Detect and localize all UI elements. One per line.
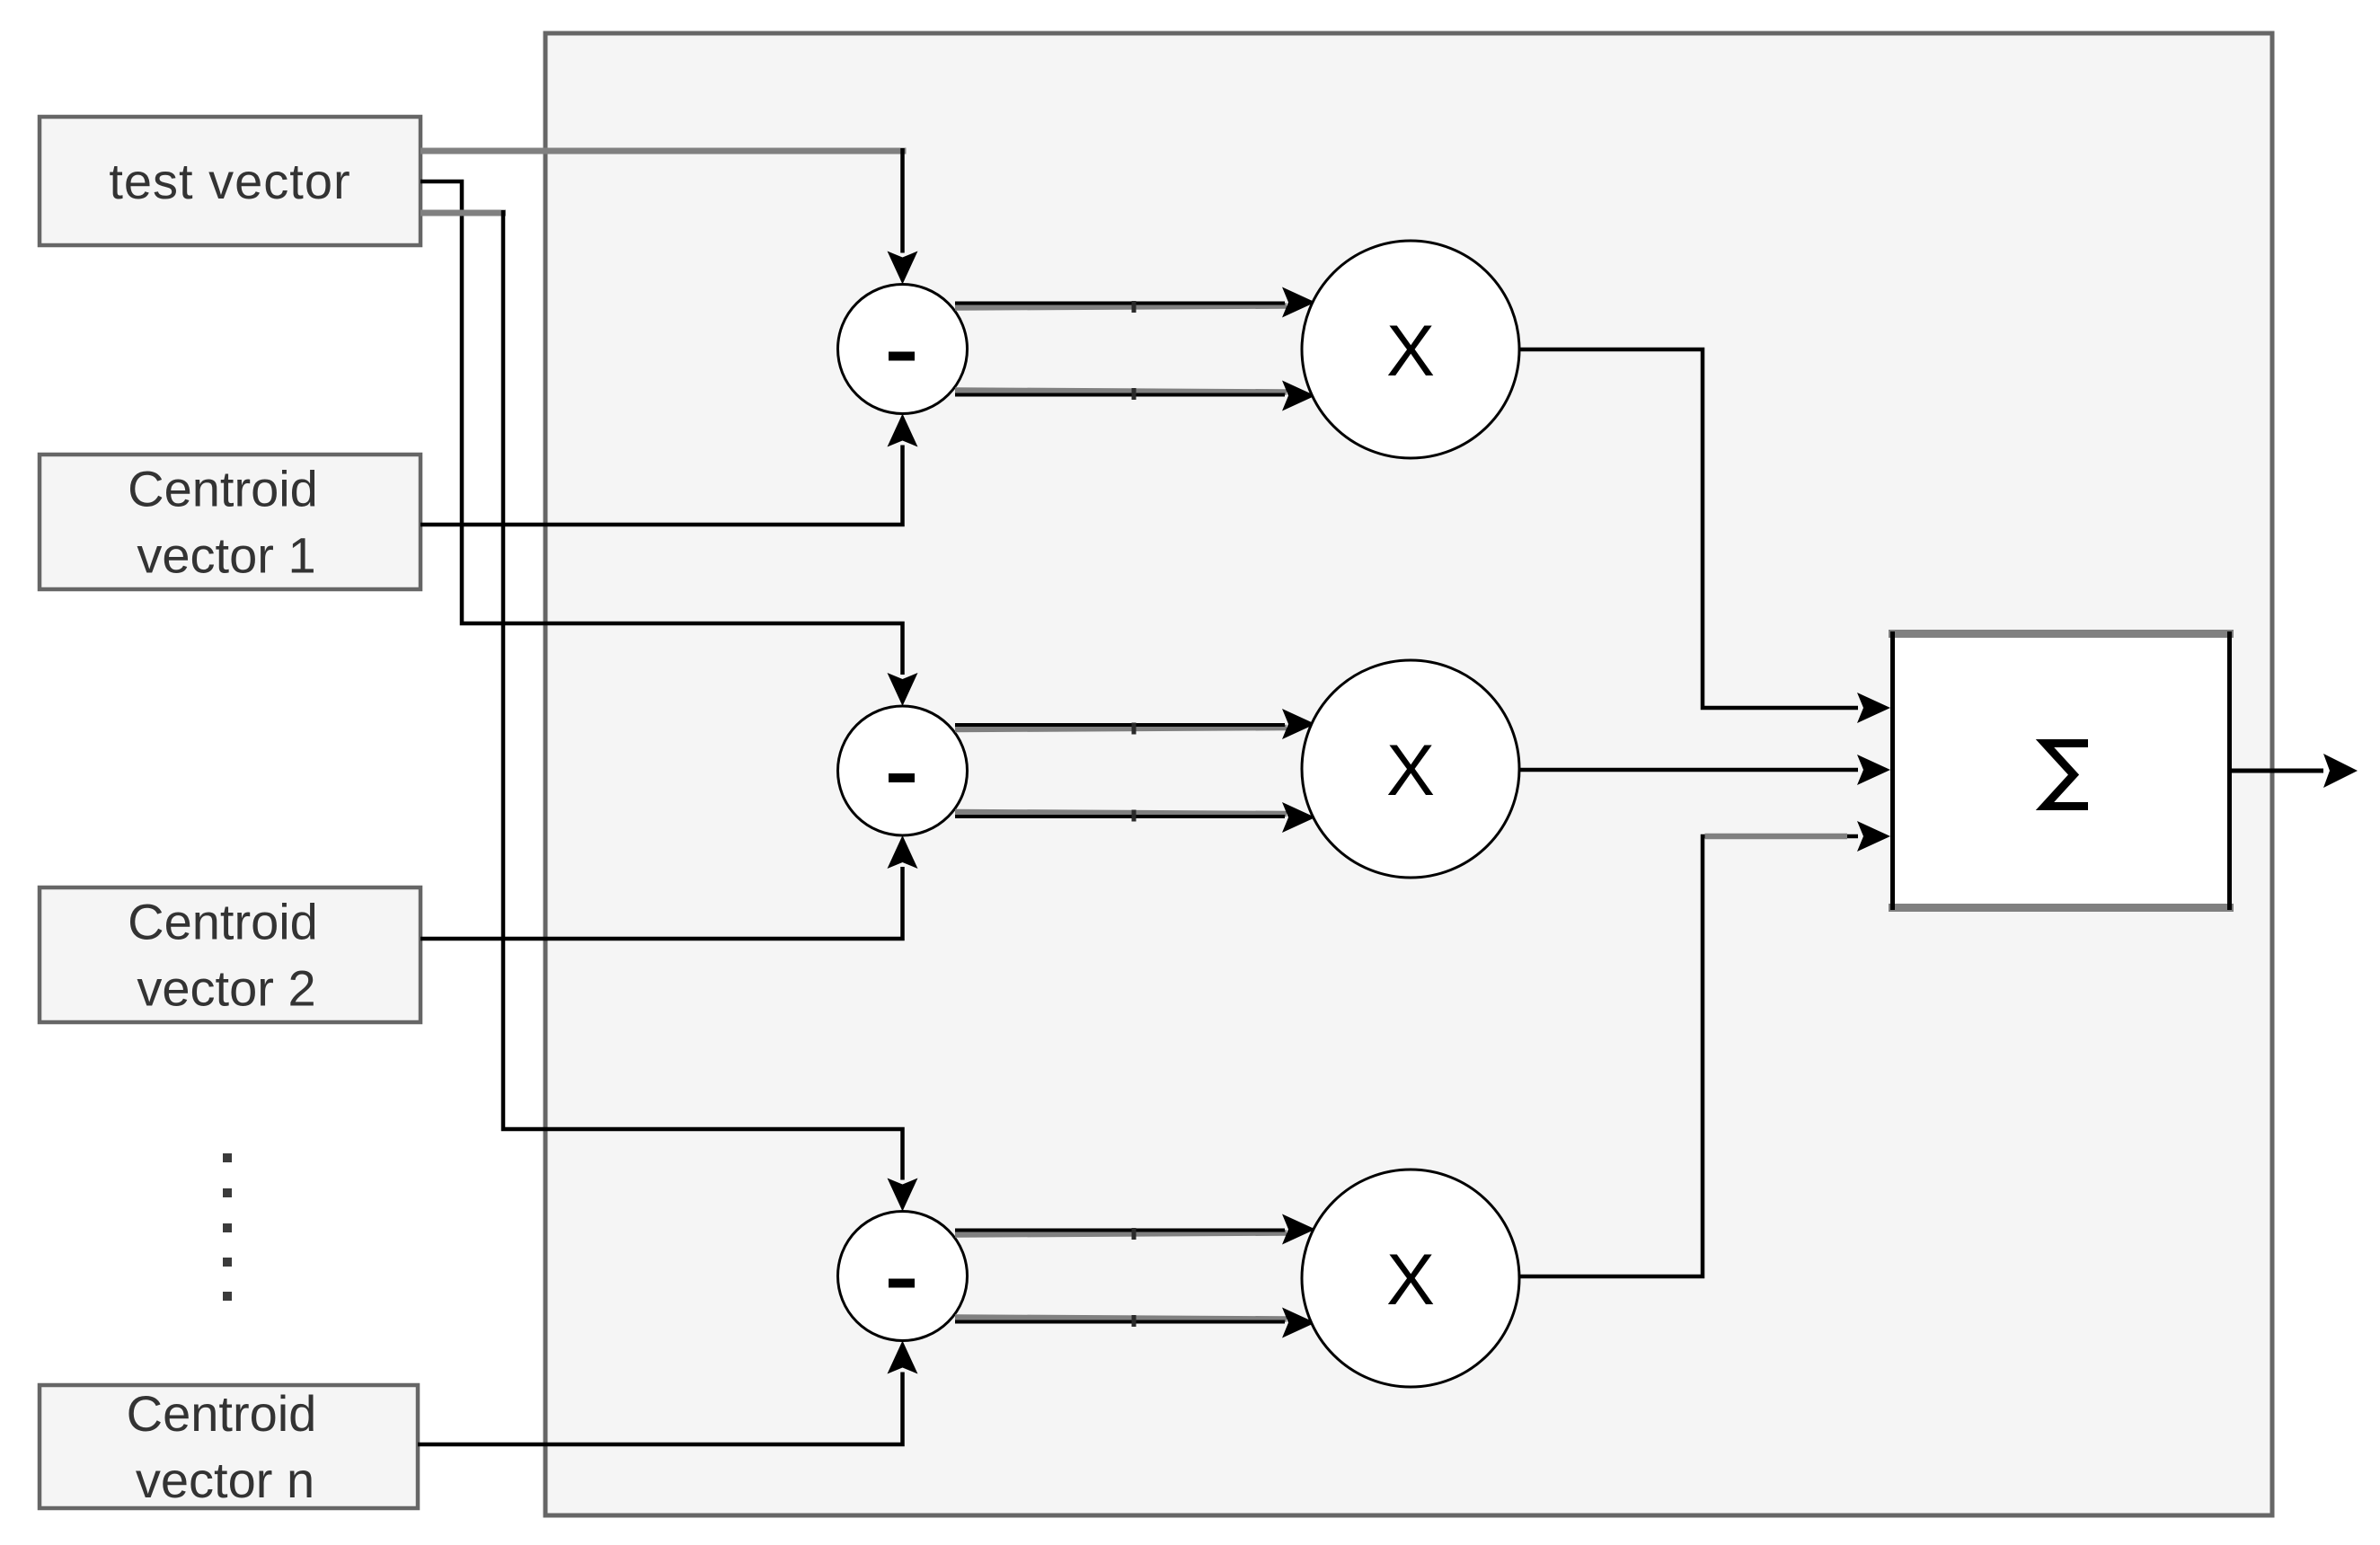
wire subtract 2 to multiply 2 upper gray (955, 728, 1287, 729)
wire subtract 2 to multiply 2 lower gray (955, 812, 1287, 814)
svg-text:X: X (1386, 311, 1435, 392)
box test vector (40, 117, 420, 245)
svg-text:test vector: test vector (109, 153, 350, 209)
wire multiply 1 to sigma (1519, 349, 1858, 708)
box Centroid vector n (40, 1385, 418, 1508)
svg-text:Centroid: Centroid (128, 461, 318, 517)
arrow into subtract 1 bottom (888, 414, 918, 447)
container block (545, 33, 2272, 1515)
wire subtract 3 to multiply 3 upper gray (955, 1233, 1287, 1235)
wire subtract 3 to multiply 3 lower black (955, 1320, 1285, 1324)
svg-text:X: X (1386, 730, 1435, 811)
wire multiply 3 to sigma (1519, 836, 1858, 1276)
arrow into multiply 2 upper input (1282, 709, 1315, 739)
box Centroid vector 2 (40, 887, 420, 1022)
arrow into sigma input 3 (1857, 821, 1890, 852)
wire test vector to subtract 2 (420, 181, 903, 675)
svg-text:Centroid: Centroid (128, 894, 318, 950)
multiply circle 1 (1302, 241, 1519, 458)
sigma output wire (2232, 769, 2323, 773)
arrow into sigma input 2 (1857, 755, 1890, 785)
multiply circle 2 (1302, 660, 1519, 878)
arrow into subtract 2 top (888, 673, 918, 706)
wire subtract 2 to multiply 2 upper black (955, 723, 1285, 727)
ellipsis dots (223, 1153, 232, 1301)
arrow into multiply 2 lower input (1282, 802, 1315, 833)
wire subtract 3 to multiply 3 upper black (955, 1229, 1285, 1232)
arrow into multiply 1 upper input (1282, 287, 1315, 318)
wire subtract 1 to multiply 1 upper black (955, 302, 1285, 305)
wire test vector to subtract 1 black segment (900, 148, 905, 253)
wire subtract 1 to multiply 1 lower gray (955, 391, 1287, 393)
svg-text:vector n: vector n (136, 1452, 314, 1508)
subtract circle 2 (838, 706, 968, 835)
wire subtract 3 to multiply 3 lower gray (955, 1318, 1287, 1320)
multiply circle 3 (1302, 1170, 1519, 1387)
junction tick on upper wire 2 (1132, 723, 1137, 735)
arrow into subtract 3 top (888, 1179, 918, 1212)
wire Centroid 1 to subtract 1 bottom (420, 446, 903, 525)
svg-text:vector 1: vector 1 (137, 527, 315, 584)
sigma box (1889, 630, 2234, 912)
junction tick on lower wire 2 (1132, 810, 1137, 822)
svg-text:X: X (1386, 1240, 1435, 1320)
box Centroid vector 1 (40, 455, 420, 589)
subtract circle 3 (838, 1212, 968, 1341)
wire Centroid n to subtract 3 bottom (418, 1373, 903, 1445)
wire multiply 2 to sigma (1519, 768, 1858, 772)
wire subtract 1 to multiply 1 upper gray (955, 306, 1287, 308)
junction tick on upper wire 1 (1132, 301, 1137, 313)
arrow into subtract 3 bottom (888, 1341, 918, 1374)
subtract circle 1 (838, 285, 968, 414)
arrow into sigma input 1 (1857, 693, 1890, 723)
junction tick on lower wire 1 (1132, 388, 1137, 400)
wire test vector to subtract 3 gray segment (420, 210, 506, 216)
sigma symbol (2045, 744, 2088, 807)
wire test vector to subtract 1 gray segment (420, 148, 907, 154)
junction tick on lower wire 3 (1132, 1315, 1137, 1327)
arrow into subtract 1 top (888, 252, 918, 285)
svg-text:Centroid: Centroid (127, 1385, 317, 1442)
arrow into multiply 3 lower input (1282, 1308, 1315, 1338)
wire subtract 2 to multiply 2 lower black (955, 815, 1285, 818)
svg-text:vector 2: vector 2 (137, 960, 315, 1017)
arrow into subtract 2 bottom (888, 835, 918, 869)
arrow into multiply 3 upper input (1282, 1214, 1315, 1245)
wire test vector to subtract 3 black segment (503, 210, 903, 1180)
wire subtract 1 to multiply 1 lower black (955, 393, 1285, 397)
arrow into multiply 1 lower input (1282, 381, 1315, 411)
arrow output (2323, 754, 2358, 788)
junction tick on upper wire 3 (1132, 1228, 1137, 1240)
wire Centroid 2 to subtract 2 bottom (420, 867, 903, 939)
